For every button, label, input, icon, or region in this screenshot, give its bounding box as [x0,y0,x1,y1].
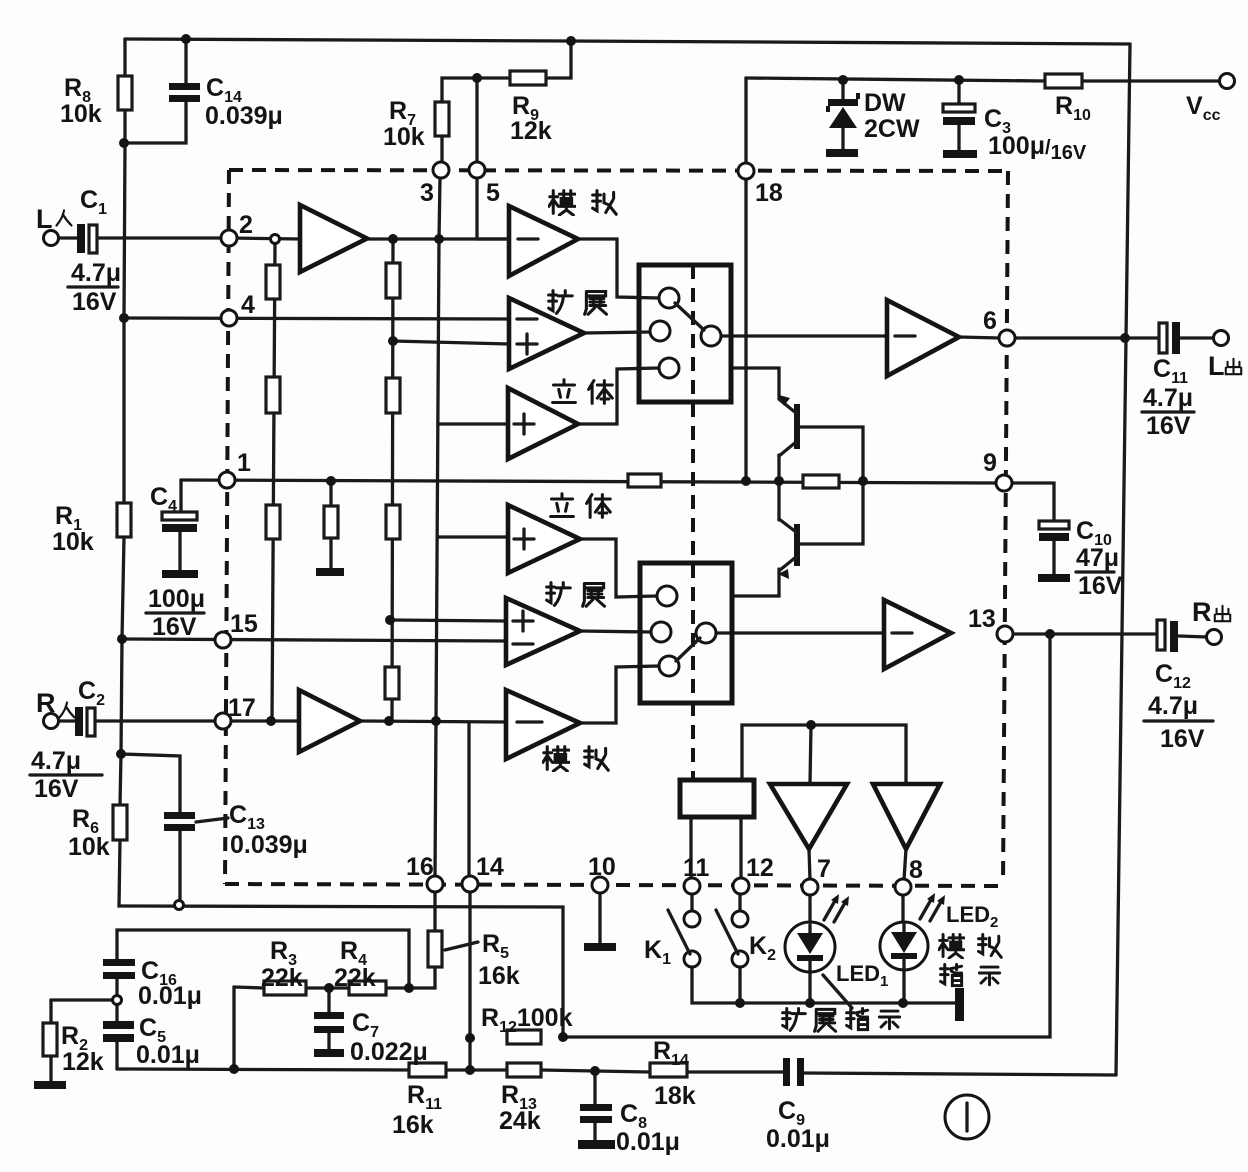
svg-text:1: 1 [237,449,251,477]
svg-text:16V: 16V [1078,572,1123,600]
svg-text:0.039μ: 0.039μ [230,831,308,859]
svg-text:18k: 18k [654,1082,696,1110]
svg-text:0.039μ: 0.039μ [205,102,283,130]
svg-text:3: 3 [420,179,434,207]
svg-text:12: 12 [746,854,774,882]
svg-text:10k: 10k [68,833,110,861]
svg-text:8: 8 [909,856,923,884]
svg-text:24k: 24k [499,1107,541,1135]
svg-text:18: 18 [755,179,783,207]
svg-text:10k: 10k [52,528,94,556]
svg-text:16V: 16V [72,288,117,316]
svg-text:L: L [1208,351,1225,381]
svg-text:6: 6 [983,307,997,335]
svg-text:DW: DW [864,89,906,117]
svg-text:2: 2 [239,211,253,239]
svg-text:16: 16 [406,853,434,881]
svg-text:10k: 10k [60,100,102,128]
svg-text:12k: 12k [510,117,552,145]
svg-text:16V: 16V [34,775,79,803]
svg-text:16V: 16V [1160,725,1205,753]
svg-text:16k: 16k [392,1111,434,1139]
svg-text:13: 13 [968,605,996,633]
svg-text:4.7μ: 4.7μ [71,259,121,287]
svg-text:0.01μ: 0.01μ [766,1125,830,1153]
svg-text:R: R [36,688,56,718]
svg-text:100μ: 100μ [148,585,205,613]
svg-text:9: 9 [983,449,997,477]
svg-text:4.7μ: 4.7μ [1148,692,1198,720]
svg-text:4.7μ: 4.7μ [31,747,81,775]
svg-text:R12100k: R12100k [481,1004,573,1036]
svg-text:22k: 22k [334,964,376,992]
svg-text:47μ: 47μ [1076,544,1119,572]
svg-text:11: 11 [683,854,710,882]
svg-text:4: 4 [241,291,255,319]
svg-text:4.7μ: 4.7μ [1143,384,1193,412]
svg-text:5: 5 [486,179,500,207]
svg-text:16V: 16V [1146,412,1191,440]
svg-text:0.01μ: 0.01μ [616,1128,680,1156]
svg-text:16V: 16V [152,613,197,641]
svg-text:2CW: 2CW [864,115,920,143]
svg-text:0.01μ: 0.01μ [136,1041,200,1069]
svg-text:12k: 12k [62,1048,104,1076]
svg-text:15: 15 [230,610,258,638]
svg-text:16k: 16k [478,962,520,990]
svg-text:14: 14 [476,853,504,881]
svg-text:0.01μ: 0.01μ [138,982,202,1010]
svg-text:22k: 22k [261,964,303,992]
svg-text:L: L [36,204,53,234]
svg-text:R: R [1192,597,1212,627]
svg-text:0.022μ: 0.022μ [350,1038,428,1066]
svg-text:10: 10 [588,853,616,881]
svg-text:10k: 10k [383,123,425,151]
svg-text:17: 17 [228,694,256,722]
svg-text:7: 7 [817,855,831,883]
